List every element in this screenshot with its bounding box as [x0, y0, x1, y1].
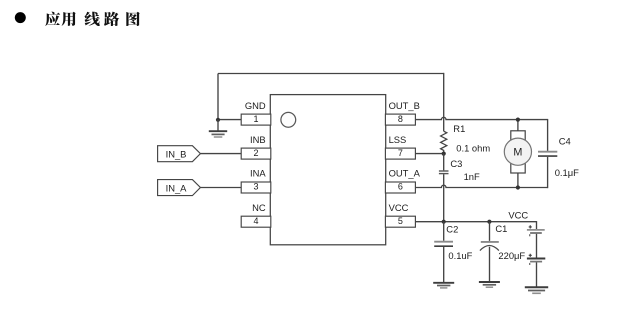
svg-text:8: 8	[398, 114, 403, 124]
junction dot VCC/C2	[442, 220, 446, 224]
pin 1 (GND) box	[241, 114, 271, 125]
ground symbol at C1	[479, 282, 500, 287]
wire IN_B to pin 2	[200, 153, 241, 155]
svg-text:OUT_B: OUT_B	[389, 100, 420, 111]
svg-text:IN_A: IN_A	[166, 183, 188, 194]
svg-text:VCC: VCC	[389, 202, 409, 213]
svg-text:0.1uF: 0.1uF	[448, 250, 472, 261]
svg-text:NC: NC	[252, 202, 266, 213]
pin 8 (OUT_B) box	[385, 114, 415, 125]
ground symbol at battery	[525, 287, 548, 293]
svg-text:C1: C1	[495, 223, 507, 234]
pin 3 (INA) box	[241, 182, 271, 193]
wire GND riser	[217, 74, 219, 120]
svg-text:0.1μF: 0.1μF	[555, 167, 579, 178]
wire pin 6 OUT_A rail with hop	[415, 185, 547, 187]
motor M1	[504, 120, 531, 188]
capacitor C3	[439, 171, 449, 174]
pin 7 (LSS) box	[385, 148, 415, 159]
resistor R1	[441, 131, 447, 153]
battery B1 (VCC supply)	[527, 221, 545, 287]
pin 6 (OUT_A) box	[385, 182, 415, 193]
svg-text:GND: GND	[245, 100, 266, 111]
ground symbol at pin 1	[209, 120, 227, 137]
wire pin 8 OUT_B rail with hop	[415, 117, 547, 119]
svg-text:7: 7	[398, 148, 403, 158]
svg-text:OUT_A: OUT_A	[389, 168, 421, 179]
bullet	[15, 12, 26, 23]
svg-text:4: 4	[253, 216, 258, 226]
pin 5 (VCC) box	[385, 216, 415, 227]
wire top rail	[218, 73, 444, 75]
svg-text:VCC: VCC	[508, 209, 528, 220]
wire right riser to R1	[443, 73, 445, 131]
IC U1 body	[270, 95, 385, 245]
input connector IN_B	[158, 146, 201, 162]
pin 4 (NC) box	[241, 216, 271, 227]
wire pin1 to GND node	[218, 119, 241, 121]
capacitor C1 (electrolytic)	[480, 222, 499, 282]
svg-text:C2: C2	[446, 224, 458, 235]
junction dot LSS/R1	[442, 152, 446, 156]
wire pin 5 VCC rail	[415, 221, 536, 223]
svg-text:220μF: 220μF	[498, 250, 525, 261]
svg-text:0.1 ohm: 0.1 ohm	[456, 143, 490, 154]
junction dot at GND node	[216, 118, 220, 122]
junction dot motor top	[516, 118, 520, 122]
svg-text:R1: R1	[453, 123, 465, 134]
svg-text:5: 5	[398, 216, 403, 226]
pin 2 (INB) box	[241, 148, 271, 159]
capacitor C2	[434, 222, 453, 283]
junction dot VCC/C1	[487, 220, 491, 224]
input connector IN_A	[158, 180, 201, 196]
svg-text:IN_B: IN_B	[166, 149, 187, 160]
capacitor C4	[538, 119, 557, 188]
svg-text:LSS: LSS	[389, 134, 407, 145]
title text 应用线路图	[45, 12, 140, 26]
svg-text:C3: C3	[450, 158, 462, 169]
svg-text:1: 1	[253, 114, 258, 124]
svg-text:2: 2	[253, 148, 258, 158]
wire C3 down to VCC rail	[443, 174, 445, 222]
svg-text:C4: C4	[559, 135, 571, 146]
svg-text:M: M	[513, 147, 522, 159]
ground symbol at C2	[433, 283, 454, 288]
pin-1 indicator circle	[281, 112, 296, 127]
wire LSS down to C3	[443, 154, 445, 171]
svg-text:1nF: 1nF	[464, 171, 480, 182]
junction dot motor bottom	[516, 185, 520, 189]
svg-text:6: 6	[398, 182, 403, 192]
wire pin 7 LSS	[415, 153, 443, 155]
svg-text:INB: INB	[250, 134, 266, 145]
svg-text:INA: INA	[250, 168, 266, 179]
wire IN_A to pin 3	[200, 187, 241, 189]
svg-text:3: 3	[253, 182, 258, 192]
